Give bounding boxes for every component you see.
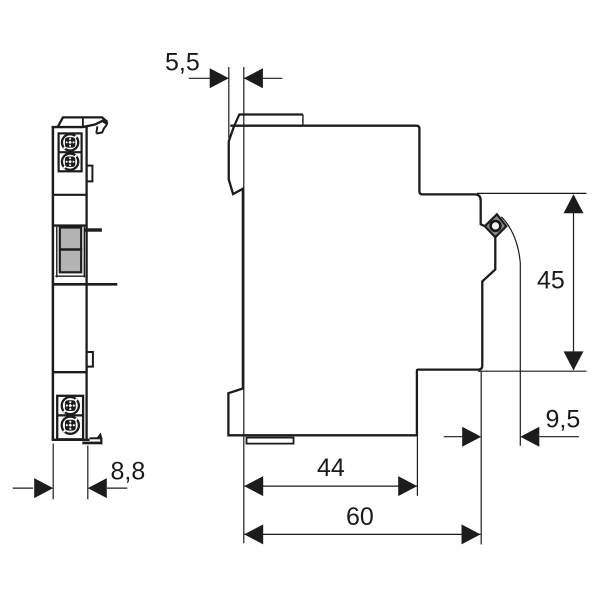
svg-text:45: 45 xyxy=(537,267,565,295)
dim 8,8 leader right xyxy=(107,487,127,489)
dim 9,5 arrow right xyxy=(520,427,539,447)
dim 45 line xyxy=(573,195,575,370)
dim 5,5 arrow left xyxy=(210,68,229,88)
dim 9,5 ext line left xyxy=(480,371,482,544)
dim 8,8 ext line left xyxy=(52,444,54,500)
latch tip joint fill xyxy=(103,119,108,125)
section divider line 1 xyxy=(53,194,87,196)
dim 45 ref line bottom xyxy=(478,370,587,372)
pivot ring xyxy=(489,220,501,232)
dim 60 arrow left xyxy=(244,524,263,544)
long mid line xyxy=(52,283,117,286)
swing arc xyxy=(501,217,520,446)
dim 5,5 / 44 / 60 ext line xyxy=(243,67,245,543)
svg-text:8,8: 8,8 xyxy=(111,458,146,486)
screw T1 xyxy=(62,134,78,150)
svg-text:60: 60 xyxy=(346,503,374,531)
dim 44 arrow right xyxy=(398,476,417,496)
screw B1 xyxy=(62,397,79,414)
DIN pivot diamond xyxy=(485,214,507,237)
cap right edge xyxy=(82,117,84,127)
upper terminal divider xyxy=(59,151,82,153)
thin line under gray xyxy=(55,275,85,277)
dim 45 arrow top xyxy=(564,194,584,213)
side body outline xyxy=(228,126,495,436)
svg-text:44: 44 xyxy=(317,454,345,482)
upper terminal frame xyxy=(59,133,82,171)
pointer bar xyxy=(84,228,102,231)
dim 8,8 ext line right xyxy=(87,446,89,500)
front body top line xyxy=(52,120,104,127)
dim 60 arrow right xyxy=(462,524,481,544)
lower terminal frame xyxy=(57,396,83,440)
dim 44 arrow left xyxy=(244,476,263,496)
section top line xyxy=(53,224,87,226)
screw B2 xyxy=(62,417,79,434)
latch right edge xyxy=(96,122,107,134)
gray block divider xyxy=(59,248,82,250)
small side tab upper xyxy=(87,166,93,182)
dim 44 ext line right xyxy=(416,437,418,496)
dim 5,5 arrow right xyxy=(244,68,263,88)
dim 8,8 leader left xyxy=(13,487,33,489)
dim 9,5 leader right xyxy=(540,436,579,438)
svg-text:5,5: 5,5 xyxy=(165,49,200,77)
pivot hole xyxy=(492,222,499,229)
front body left edge xyxy=(52,126,55,440)
latch notch line xyxy=(96,126,97,133)
dim 45 arrow bottom xyxy=(564,351,584,370)
inner frame left thin xyxy=(56,227,58,278)
dim 9,5 arrow left xyxy=(462,427,481,447)
front top cap xyxy=(58,117,108,127)
front body right edge xyxy=(85,126,87,440)
dim 5,5 leader right xyxy=(244,77,283,79)
front bottom line xyxy=(52,439,90,441)
gray block xyxy=(60,228,81,273)
inner frame right thin xyxy=(83,227,85,278)
dim 60 line xyxy=(244,533,480,535)
section divider line 2 xyxy=(53,371,87,373)
screw T2 xyxy=(62,154,78,170)
svg-text:9,5: 9,5 xyxy=(546,406,581,434)
small side tab lower xyxy=(87,352,93,367)
dim 9,5 leader left xyxy=(444,436,463,438)
front foot bracket xyxy=(82,432,102,444)
dim 8,8 arrow left xyxy=(34,478,53,498)
dim 45 ref line top xyxy=(477,192,587,194)
side bottom foot xyxy=(247,438,294,444)
dim 8,8 arrow right xyxy=(88,478,107,498)
dim 5,5 ext line left xyxy=(228,67,230,138)
lower terminal divider xyxy=(57,414,83,416)
top tab right edge xyxy=(302,115,304,126)
dim 44 line xyxy=(244,485,417,487)
top tab xyxy=(234,115,303,126)
dim 5,5 leader left xyxy=(189,77,210,79)
